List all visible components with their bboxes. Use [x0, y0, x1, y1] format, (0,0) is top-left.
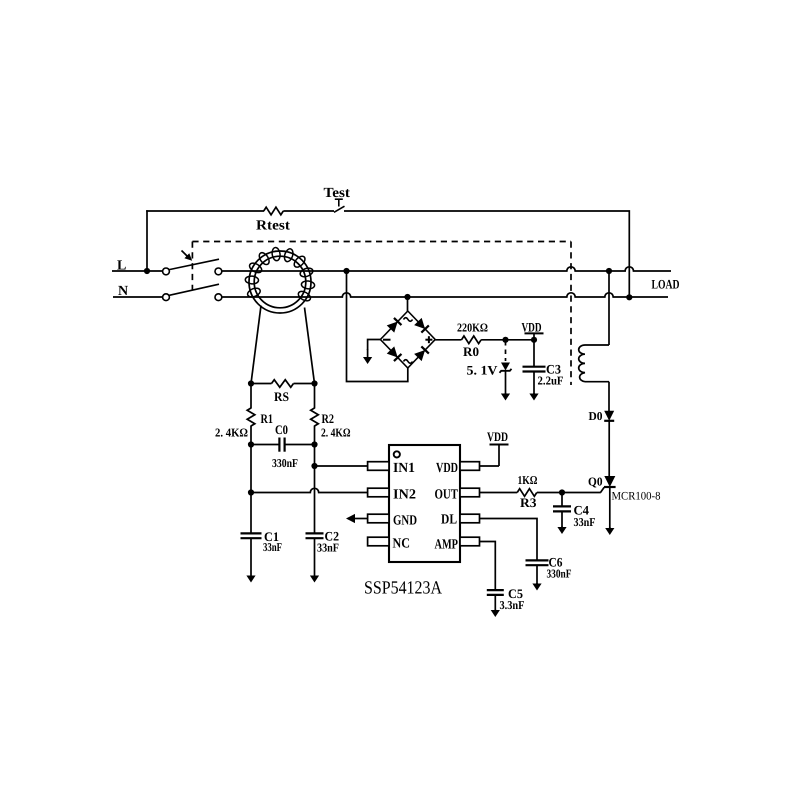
ground below C5: [491, 610, 500, 618]
wire Rtest to Test switch: [283, 210, 334, 212]
wire RS to R2: [314, 384, 316, 409]
switch actuation arrow: [182, 251, 193, 261]
label Q0: [588, 475, 603, 489]
capacitor C2: [306, 533, 324, 538]
label C1 value 33nF: [263, 540, 282, 554]
bridge diode bottom-right: [414, 346, 429, 361]
IC pin label DL: [441, 513, 457, 528]
junction N at bridge branch: [404, 294, 410, 300]
dashed linkage vertical at switch: [191, 242, 193, 291]
wire Q0 cathode to ground: [609, 487, 611, 528]
capacitor C0: [279, 438, 284, 452]
wire bridge plus to R0: [435, 339, 461, 341]
IC right pin OUT: [460, 488, 480, 497]
IC right pin AMP: [460, 537, 480, 546]
label C6 value 330nF: [547, 567, 572, 581]
wire VDD symbol to pin: [480, 465, 500, 467]
junction zener node: [502, 337, 508, 343]
toroid secondary lead right: [305, 308, 315, 384]
wire R2 to C0 row: [314, 426, 316, 445]
switch blade N: [169, 284, 219, 295]
svg-text:VDD: VDD: [487, 429, 508, 444]
label C3 value 2.2uF: [538, 374, 564, 388]
wire bridge minus to ground: [368, 340, 381, 351]
junction L at test vertical: [144, 268, 150, 274]
pushbutton Test switch: [334, 199, 345, 212]
IC pin label VDD: [436, 461, 458, 476]
label C6: [549, 555, 563, 570]
label R3 value 1K: [518, 473, 538, 487]
svg-text:SSP54123A: SSP54123A: [364, 579, 443, 599]
label C5 value 3.3nF: [500, 598, 525, 612]
svg-text:AMP: AMP: [435, 538, 459, 553]
wire L rail to LOAD: [222, 267, 671, 271]
wire DL to C6: [480, 519, 538, 561]
IC pin label IN1: [393, 461, 415, 476]
resistor RS: [272, 380, 294, 388]
resistor R0: [462, 336, 482, 344]
capacitor C4: [553, 506, 571, 511]
svg-text:DL: DL: [441, 513, 457, 528]
switch blade L: [169, 259, 219, 269]
svg-text:MCR100-8: MCR100-8: [612, 491, 661, 503]
svg-text:1KΩ: 1KΩ: [518, 473, 538, 487]
svg-text:2. 4KΩ: 2. 4KΩ: [321, 426, 351, 440]
wire RS right: [294, 383, 315, 385]
capacitor C5: [487, 590, 504, 595]
junction C0 left: [248, 441, 254, 447]
label Q0 part MCR100-8: [612, 491, 661, 503]
label R2 value 2.4K: [321, 426, 351, 440]
ground below C3: [529, 393, 538, 401]
svg-text:330nF: 330nF: [547, 567, 572, 581]
junction C4 node: [559, 489, 565, 495]
bridge AC mark bottom: [404, 360, 413, 364]
dashed linkage vertical at solenoid: [570, 242, 572, 386]
wire C3 to ground: [533, 372, 535, 395]
label R0: [463, 344, 479, 359]
wire test line left segment: [146, 210, 264, 212]
junction C3 node: [531, 337, 537, 343]
bridge diode top-left: [387, 318, 402, 333]
IC left pin IN2: [368, 488, 389, 497]
toroid current transformer: [245, 247, 315, 313]
junction IN1 branch: [311, 463, 317, 469]
wire RS to R1: [250, 384, 252, 409]
IC right pin VDD: [460, 462, 480, 471]
svg-text:VDD: VDD: [522, 320, 542, 335]
svg-text:R3: R3: [520, 495, 537, 510]
diode D0: [604, 411, 614, 421]
svg-text:C0: C0: [275, 422, 288, 437]
bridge rectifier outline: [380, 311, 435, 368]
resistor R3: [517, 489, 537, 497]
svg-text:Rtest: Rtest: [256, 219, 290, 234]
zener diode 5.1V: [500, 363, 512, 373]
wire node to C4: [561, 493, 563, 507]
label R1 value 2.4K: [215, 426, 248, 440]
IC U1 body: [389, 445, 460, 562]
ground below zener: [501, 393, 510, 401]
svg-text:VDD: VDD: [436, 461, 458, 476]
wire IN1: [315, 465, 368, 467]
wire solenoid to D0: [608, 382, 610, 412]
wire AMP to C5: [480, 542, 496, 591]
power symbol VDD at IC: [490, 445, 509, 467]
junction test wire to N: [626, 294, 632, 300]
wire node to C3: [533, 340, 535, 367]
svg-text:33nF: 33nF: [317, 541, 339, 555]
junction IN2 branch: [248, 489, 254, 495]
label Test: [324, 186, 351, 201]
svg-text:OUT: OUT: [435, 488, 459, 503]
svg-text:33nF: 33nF: [263, 540, 282, 554]
wire left column C0 to C1: [250, 445, 252, 534]
wire C6 to ground: [536, 565, 538, 584]
label C4 value 33nF: [574, 515, 596, 529]
IC pin label IN2: [393, 488, 416, 503]
resistor Rtest: [264, 207, 284, 215]
switch contact circle L left: [163, 268, 170, 275]
label C0 value 330nF: [272, 456, 298, 470]
svg-text:2. 4KΩ: 2. 4KΩ: [215, 426, 248, 440]
switch contact circle N left: [163, 294, 170, 301]
IC right pin DL: [460, 514, 480, 523]
svg-text:2.2uF: 2.2uF: [538, 374, 564, 388]
svg-text:5. 1V: 5. 1V: [467, 363, 499, 378]
resistor R2: [311, 408, 319, 426]
IC left pin GND: [368, 514, 389, 523]
svg-text:LOAD: LOAD: [652, 277, 680, 292]
label L: [117, 259, 126, 274]
power symbol VDD: [525, 333, 544, 339]
dashed linkage horizontal: [192, 241, 571, 243]
label N: [118, 284, 128, 299]
ground at bridge minus: [363, 349, 372, 364]
label C1: [264, 529, 279, 544]
ground below C1: [246, 538, 255, 582]
toroid secondary lead left: [251, 306, 261, 384]
IC pin label GND: [393, 514, 417, 529]
solenoid coil: [579, 345, 609, 382]
ground below Q0: [605, 527, 614, 535]
switch contact circle N right: [215, 294, 222, 301]
label Rtest: [256, 219, 290, 234]
switch contact circle L right: [215, 268, 222, 275]
svg-text:NC: NC: [393, 537, 411, 552]
label R2: [322, 411, 335, 426]
svg-text:R2: R2: [322, 411, 335, 426]
label C2 value 33nF: [317, 541, 339, 555]
label C0: [275, 422, 288, 437]
label C5: [508, 586, 523, 601]
IC left pin NC: [368, 537, 389, 546]
wire OUT to R3: [480, 492, 518, 494]
svg-text:Test: Test: [324, 186, 351, 201]
capacitor C6: [526, 560, 549, 565]
svg-text:IN2: IN2: [393, 488, 416, 503]
ground arrow at GND pin: [346, 514, 368, 523]
wire C5 to ground: [494, 595, 496, 611]
label R3: [520, 495, 537, 510]
ground below C6: [532, 583, 541, 591]
svg-text:220KΩ: 220KΩ: [457, 321, 488, 335]
svg-text:R0: R0: [463, 344, 479, 359]
label R0 value 220K: [457, 321, 488, 335]
label VDD: [522, 320, 542, 335]
bridge plus mark: [425, 336, 432, 343]
svg-text:33nF: 33nF: [574, 515, 596, 529]
wire R0 to VDD node: [481, 339, 534, 341]
junction L at bridge branch: [343, 268, 349, 274]
label RS: [274, 389, 289, 404]
label SSP54123A: [364, 579, 443, 599]
svg-text:R1: R1: [261, 411, 274, 426]
wire from L node up to test line: [146, 210, 148, 271]
junction C0 right: [311, 441, 317, 447]
wire C4 to ground: [561, 511, 563, 527]
IC pin1 marker: [394, 451, 400, 457]
svg-text:RS: RS: [274, 389, 289, 404]
wire C0 right: [285, 444, 315, 446]
svg-text:IN1: IN1: [393, 461, 415, 476]
label R1: [261, 411, 274, 426]
label zener 5.1V: [467, 363, 499, 378]
IC left pin IN1: [368, 462, 389, 471]
wire IN2 with hop: [251, 488, 368, 492]
dashed wire node to zener: [505, 341, 507, 361]
label LOAD: [652, 277, 680, 292]
bridge diode top-right: [414, 318, 429, 333]
thyristor Q0: [601, 476, 616, 493]
wire zener to ground: [505, 371, 507, 394]
wire N to bridge top: [407, 297, 409, 311]
ground below C2: [310, 538, 319, 582]
resistor R1: [247, 408, 255, 426]
svg-text:3.3nF: 3.3nF: [500, 598, 525, 612]
wire bridge bottom loop to L: [347, 271, 408, 382]
junction RS right: [311, 380, 317, 386]
label D0: [589, 409, 603, 423]
ground below C4: [557, 527, 566, 535]
wire N rail to LOAD: [222, 293, 668, 297]
label VDD at IC: [487, 429, 508, 444]
wire C0 left: [251, 444, 279, 446]
wire R3 to gate: [537, 492, 601, 494]
capacitor C1: [241, 533, 262, 538]
label C3: [546, 362, 561, 377]
junction L at solenoid branch: [606, 268, 612, 274]
label C4: [574, 503, 590, 518]
bridge diode bottom-left: [387, 346, 402, 361]
bridge AC mark top: [404, 318, 413, 322]
junction RS left: [248, 380, 254, 386]
terminal N input wire: [113, 296, 163, 298]
label C2: [325, 529, 340, 544]
wire D0 to Q0: [608, 421, 610, 476]
IC pin label AMP: [435, 538, 459, 553]
svg-text:330nF: 330nF: [272, 456, 298, 470]
terminal L input wire: [112, 270, 163, 272]
svg-text:GND: GND: [393, 514, 417, 529]
bridge minus mark: [383, 339, 391, 341]
svg-text:D0: D0: [589, 409, 603, 423]
wire R1 to C0 row: [250, 426, 252, 445]
svg-text:Q0: Q0: [588, 475, 603, 489]
wire RS left: [251, 383, 272, 385]
wire Test switch to N load side: [344, 211, 629, 297]
capacitor C3: [523, 367, 546, 372]
wire right column to IN1 row: [314, 445, 316, 534]
IC pin label NC: [393, 537, 411, 552]
wire L to solenoid: [608, 271, 610, 345]
IC pin label OUT: [435, 488, 459, 503]
